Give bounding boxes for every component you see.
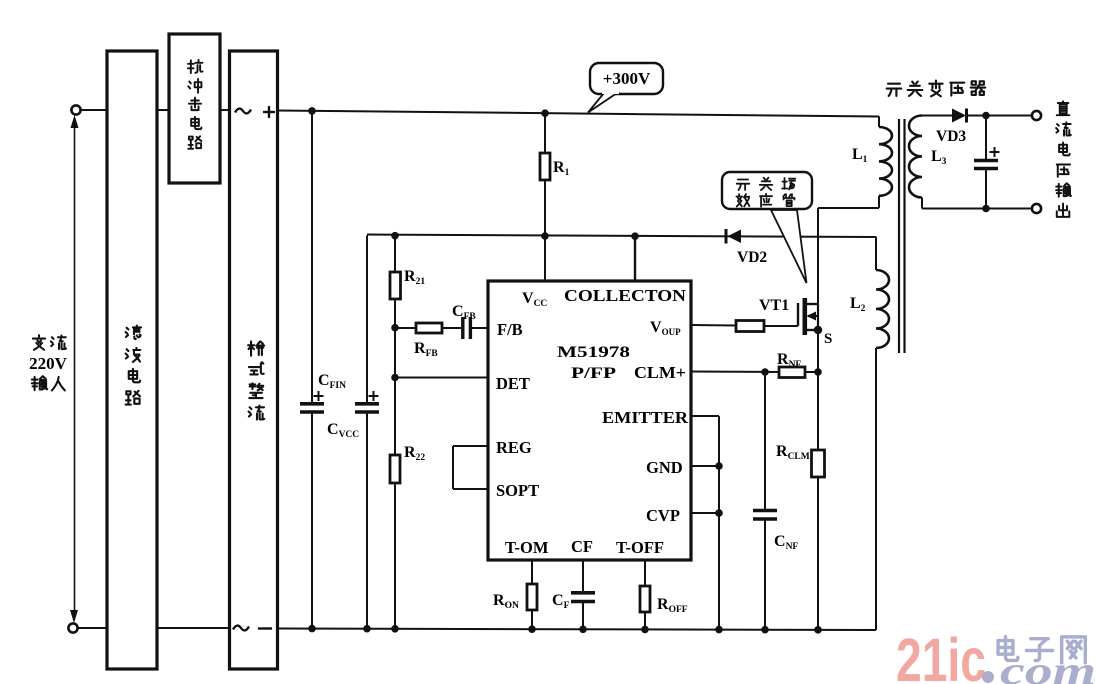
svg-text:P/FP: P/FP (571, 365, 617, 382)
wire bottom rail: terminal to filter (78, 627, 108, 629)
svg-text:CVP: CVP (646, 506, 680, 525)
wire top rail: anti-surge to bridge (220, 109, 230, 111)
terminal AC input bottom (68, 623, 77, 632)
junction bottom rail IC ground (715, 626, 723, 634)
junction GND (715, 462, 723, 470)
block anti-surge circuit box (169, 34, 220, 183)
junction RNF right on source line (814, 368, 822, 376)
svg-text:M51978: M51978 (557, 344, 630, 361)
inductor L2 auxiliary winding (876, 237, 889, 631)
terminal DC output plus (1032, 111, 1041, 120)
junction bottom rail CNF (761, 626, 769, 634)
svg-text:DET: DET (496, 374, 530, 393)
svg-text:EMITTER: EMITTER (602, 408, 689, 427)
wire top rail +300V bus (278, 111, 880, 117)
svg-text:220V: 220V (29, 354, 68, 373)
watermark .com (982, 671, 994, 683)
wire DET to IC (395, 377, 488, 379)
junction output cap bottom (982, 205, 990, 213)
resistor gate drive (691, 321, 798, 332)
IC pin COLLECTON lead (634, 236, 636, 281)
svg-text:21ic: 21ic (896, 626, 986, 684)
transistor Q1 VT1 MOSFET (798, 208, 818, 335)
junction VCC bus COLLECTON pin (631, 232, 639, 240)
svg-text:VD3: VD3 (936, 128, 966, 145)
resistor R22 (390, 378, 400, 630)
junction bottom rail CF (579, 625, 587, 633)
resistor R21 (390, 236, 401, 328)
wire GND pin (691, 465, 719, 467)
wire REG-SOPT loop (453, 446, 488, 489)
bridge AC mark top (235, 109, 251, 114)
callout arrow to VT1 (771, 210, 807, 283)
wire VCC bus horizontal (367, 235, 876, 238)
junction bottom rail RON (528, 625, 536, 633)
resistor RFB (395, 323, 461, 333)
junction VCC bus R1/VCC pin (541, 232, 549, 240)
junction FB node (391, 324, 399, 332)
junction bottom rail R22 (391, 625, 399, 633)
junction DET node (391, 374, 399, 382)
block filter circuit box (107, 51, 157, 669)
capacitor CNF (753, 372, 777, 631)
resistor RCLM (812, 330, 825, 631)
label bridge rectifier 桥式整流 (248, 341, 264, 419)
AC input double-headed arrow line (70, 115, 79, 623)
op-amp/controller IC U1 M51978 box (488, 281, 691, 560)
bridge minus mark bottom (258, 627, 272, 629)
svg-text:CF: CF (571, 537, 593, 556)
label DC voltage output 直流电压输出 (1056, 101, 1071, 217)
wire CVP pin (691, 512, 719, 514)
capacitor CFIN (300, 111, 324, 629)
svg-text:GND: GND (646, 458, 683, 477)
wire top rail: filter to anti-surge (157, 109, 169, 111)
svg-text:+300V: +300V (603, 69, 651, 88)
svg-text:S: S (824, 331, 832, 347)
resistor RNF (779, 367, 818, 378)
junction bottom rail RCLM (814, 626, 822, 634)
capacitor CFB (463, 317, 488, 339)
bridge AC mark bottom (233, 626, 249, 631)
junction top rail R1 (541, 109, 549, 117)
resistor R1 (540, 113, 550, 236)
callout +300V (590, 63, 663, 94)
label transformer 开关变压器 (887, 81, 986, 97)
terminal AC input top (71, 105, 80, 114)
svg-text:REG: REG (496, 438, 532, 457)
resistor ROFF (640, 560, 650, 630)
junction CLM+/CNF (761, 368, 769, 376)
wire CLM+ to RNF (691, 371, 779, 374)
junction CVP (715, 509, 723, 517)
svg-text:COLLECTON: COLLECTON (564, 286, 686, 305)
inductor L1 primary winding (818, 116, 892, 208)
svg-text:com: com (1000, 648, 1096, 684)
capacitor CVCC (355, 236, 379, 630)
svg-text:VD2: VD2 (737, 249, 767, 266)
capacitor output electrolytic (974, 116, 1000, 209)
wire bottom rail ground bus (278, 629, 877, 631)
block bridge rectifier box (230, 51, 278, 669)
wire top rail: terminal to filter box (81, 109, 108, 111)
svg-text:CLM+: CLM+ (634, 363, 686, 382)
junction bottom rail CVCC (363, 625, 371, 633)
junction top rail CFIN (308, 107, 316, 115)
svg-text:T-OFF: T-OFF (616, 538, 664, 557)
terminal DC output minus (1032, 204, 1041, 213)
svg-text:T-OM: T-OM (505, 538, 549, 557)
wire FB node to DET node (394, 328, 396, 378)
diode VD3 (952, 109, 1032, 123)
inductor L3 secondary winding (909, 116, 1032, 209)
bridge plus mark top (263, 106, 275, 118)
junction VCC bus R21 (391, 232, 399, 240)
transformer core (899, 119, 905, 353)
wire bottom rail: filter to bridge (157, 627, 230, 629)
label filter circuit 滤波电路 (126, 326, 141, 405)
label AC 220V input line1 交流 (33, 335, 66, 350)
capacitor CF2 timing (571, 560, 595, 629)
label anti-surge circuit 抗冲击电路 (188, 60, 203, 149)
label input line3 输入 (32, 376, 65, 390)
junction bottom rail CFIN (308, 625, 316, 633)
diode VD2 (726, 229, 741, 244)
callout box switching FET label (722, 172, 812, 209)
resistor RON (527, 560, 537, 629)
svg-text:F/B: F/B (497, 320, 523, 339)
wire EMITTER to ground bus (691, 416, 719, 630)
svg-text:VT1: VT1 (759, 297, 789, 314)
IC pin VCC lead (544, 236, 546, 281)
junction source S (814, 326, 822, 334)
junction output cap top (982, 112, 990, 120)
junction bottom rail ROFF (641, 626, 649, 634)
svg-text:SOPT: SOPT (496, 481, 539, 500)
watermark 电子网 (998, 637, 1085, 663)
